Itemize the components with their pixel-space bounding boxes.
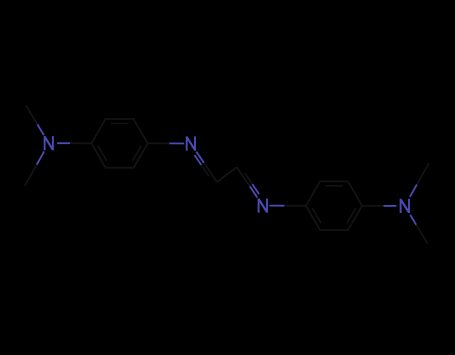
bond C4-N2 ring to imine N (N-half, blue) xyxy=(169,142,184,144)
bond C4-N2 ring to imine N (C-half, dark) xyxy=(148,142,170,144)
bond N3-C1' to right ring (N-half, blue) xyxy=(269,205,284,207)
benzene ring left inner aromatic line 1 xyxy=(111,122,129,124)
benzene ring right inner aromatic line 1 xyxy=(325,185,343,187)
nitrogen atom label N4 (right dimethylamino) xyxy=(401,199,409,213)
double bond N3=CH inner (N-half, blue) xyxy=(252,184,259,194)
benzene ring right inner aromatic line 3 xyxy=(312,208,321,223)
bond N4-CH3 lower methyl (N-half, blue) xyxy=(410,215,416,225)
double bond N2=CH main (C-half, dark) xyxy=(204,163,217,182)
double bond N2=CH inner (N-half, blue) xyxy=(195,155,202,165)
nitrogen atom label N2 (left imine) xyxy=(187,136,195,150)
bond C4'-N4 ring to right dimethylamino (C-half, dark) xyxy=(362,205,383,207)
benzene ring left inner aromatic line 3 xyxy=(98,146,107,161)
bond N1-C1 to left ring (C-half, dark) xyxy=(70,142,91,144)
bond N1-C1 to left ring (N-half, blue) xyxy=(57,142,70,144)
bond C4'-N4 ring to right dimethylamino (N-half, blue) xyxy=(384,205,397,207)
double bond N3=CH main (C-half, dark) xyxy=(237,167,250,186)
bond N1-CH3 upper methyl (C-half, dark) xyxy=(26,105,37,124)
bond N1-CH3 lower methyl (C-half, dark) xyxy=(25,165,37,187)
bond N4-CH3 upper methyl (N-half, blue) xyxy=(410,184,417,196)
double bond N2=CH main (N-half, blue) xyxy=(196,152,204,163)
benzene ring right outline xyxy=(306,181,362,230)
double bond N3=CH main (N-half, blue) xyxy=(250,186,257,197)
nitrogen atom label N3 (right imine) xyxy=(259,199,267,213)
bond CH-CH central single bond (dark) xyxy=(217,167,237,182)
nitrogen atom label N1 (left dimethylamino) xyxy=(45,136,53,150)
benzene ring right inner aromatic line 2 xyxy=(347,208,356,223)
bond N4-CH3 lower methyl (C-half, dark) xyxy=(416,225,427,244)
bond N1-CH3 lower methyl (N-half, blue) xyxy=(37,151,45,164)
benzene ring left inner aromatic line 2 xyxy=(133,146,142,161)
benzene ring left outline xyxy=(92,119,148,168)
bond N1-CH3 upper methyl (N-half, blue) xyxy=(37,124,44,135)
bond N3-C1' to right ring (C-half, dark) xyxy=(284,205,306,207)
double bond N3=CH inner (C-half, dark) xyxy=(245,173,253,184)
double bond N2=CH inner (C-half, dark) xyxy=(201,165,209,176)
bond N4-CH3 upper methyl (C-half, dark) xyxy=(417,163,429,185)
